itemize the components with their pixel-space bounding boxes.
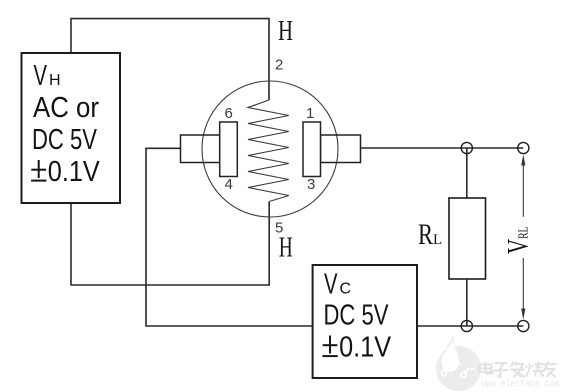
svg-text:www.elecfans.com: www.elecfans.com <box>481 379 559 391</box>
watermark logo <box>436 335 481 391</box>
VRL measure arrow upper <box>521 155 525 217</box>
wire VH bottom to heater pin 5 <box>71 202 269 286</box>
VH value label <box>31 60 100 188</box>
terminal node bottom-right <box>518 320 529 331</box>
wire top rail VH to heater pin 2 <box>71 19 269 100</box>
svg-text:AC or: AC or <box>33 92 99 124</box>
terminal node top-left <box>461 142 472 153</box>
svg-text:L: L <box>433 232 442 248</box>
wire tab 6/4 to VC box <box>146 148 313 326</box>
wire RL to bottom rail <box>466 279 468 326</box>
heater zigzag resistor <box>248 100 289 202</box>
svg-text:1: 1 <box>306 105 314 122</box>
electrode 6-4 <box>220 122 238 177</box>
resistor RL <box>449 198 486 279</box>
VRL measure arrow lower <box>521 258 525 320</box>
svg-text:0.1V: 0.1V <box>339 332 391 364</box>
svg-text:DC 5V: DC 5V <box>32 124 97 156</box>
wire tab 1/3 to output terminals <box>361 147 524 149</box>
svg-text:4: 4 <box>225 176 233 193</box>
wire VC to bottom terminals <box>417 325 523 327</box>
svg-text:6: 6 <box>225 105 233 122</box>
svg-text:2: 2 <box>275 57 283 74</box>
sensor envelope circle <box>202 81 338 217</box>
voltage source VH box <box>22 53 121 203</box>
svg-text:H: H <box>278 16 293 47</box>
wire terminal to RL <box>466 148 468 198</box>
terminal node bottom-left <box>461 320 472 331</box>
watermark text dianzifashaoyou <box>480 362 557 378</box>
voltage source VC box <box>313 265 417 378</box>
terminal node top-right <box>518 142 529 153</box>
svg-text:R: R <box>418 218 433 251</box>
svg-text:H: H <box>279 232 293 263</box>
svg-text:3: 3 <box>307 176 315 193</box>
svg-text:DC 5V: DC 5V <box>324 300 389 332</box>
electrode 1-3 <box>303 122 321 177</box>
svg-text:0.1V: 0.1V <box>48 156 100 188</box>
lead tab pins 6/4 <box>181 135 220 163</box>
VC value label <box>322 269 391 364</box>
lead tab pins 1/3 <box>321 135 361 163</box>
